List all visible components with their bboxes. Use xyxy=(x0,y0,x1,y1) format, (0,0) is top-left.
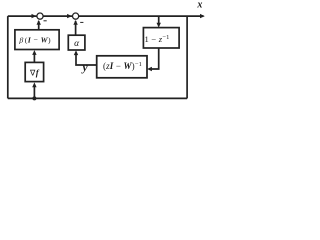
block: 1 - z^-1 xyxy=(143,28,179,48)
wire: left feedback vertical segment xyxy=(7,16,9,98)
wire: bottom feedback branch to gradient box xyxy=(33,87,35,99)
arrowhead into summing junction 1 xyxy=(32,14,37,18)
summing junction 1 xyxy=(37,13,43,19)
arrowhead into summing junction 2 xyxy=(67,14,72,18)
wire: 1-z^-1 block down and left into (zI-W)^-1 block xyxy=(151,48,159,69)
svg-text:y: y xyxy=(81,62,89,74)
svg-text:β (I − W): β (I − W) xyxy=(18,36,51,45)
wire: gradient box to beta box xyxy=(33,54,35,62)
arrowhead into gradient box bottom xyxy=(32,82,36,87)
arrowhead: output x xyxy=(200,14,205,18)
summing junction 2 xyxy=(73,13,79,19)
arrowhead into alpha bottom xyxy=(74,50,78,55)
wire: top signal path xyxy=(8,15,204,17)
wire: right feedback vertical segment xyxy=(186,16,188,98)
arrowhead into beta box bottom xyxy=(32,50,36,55)
junction dot on bottom wire xyxy=(32,96,36,100)
arrowhead into 1-z^-1 block top xyxy=(157,23,161,28)
block: gradient f xyxy=(25,62,43,81)
arrowhead into junction 1 (minus input) xyxy=(37,20,41,25)
wire: top path branch down to 1-z^-1 block xyxy=(158,16,160,23)
wire: y output of (zI-W)^-1 up into alpha xyxy=(76,54,97,65)
wire: alpha box to summing junction 2 xyxy=(75,21,77,35)
block: beta(I-W) xyxy=(15,30,59,50)
label minus at junction 1 xyxy=(44,20,47,21)
arrowhead into junction 2 (minus input) xyxy=(73,20,77,25)
block: (zI-W)^-1 xyxy=(97,56,147,78)
wire: beta box to summing junction 1 xyxy=(38,21,40,30)
label minus at junction 2 xyxy=(80,22,83,23)
arrowhead into (zI-W)^-1 right side xyxy=(147,67,152,71)
svg-text:x: x xyxy=(196,0,202,11)
block: alpha xyxy=(68,35,85,50)
wire: bottom feedback horizontal segment xyxy=(8,97,187,99)
svg-text:∇f: ∇f xyxy=(29,68,40,78)
